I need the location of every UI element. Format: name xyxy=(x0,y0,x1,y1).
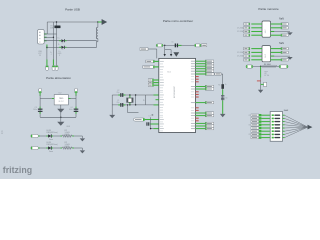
svg-text:NaN: NaN xyxy=(279,18,284,21)
svg-text:IN OUT: IN OUT xyxy=(59,101,64,103)
svg-text:RED(633nm): RED(633nm) xyxy=(47,144,58,146)
svg-text:NaN: NaN xyxy=(284,110,289,112)
svg-text:C7: C7 xyxy=(149,116,151,118)
svg-text:WP: WP xyxy=(264,73,266,75)
svg-text:1k: 1k xyxy=(225,84,227,86)
svg-text:Z1: Z1 xyxy=(62,43,64,45)
svg-text:R6 10kΩ: R6 10kΩ xyxy=(264,64,271,66)
svg-text:IC2: IC2 xyxy=(59,93,62,95)
svg-text:Z2: Z2 xyxy=(62,49,64,51)
svg-text:C6: C6 xyxy=(225,98,227,100)
svg-text:5mm: 5mm xyxy=(49,151,53,153)
svg-text:22p: 22p xyxy=(116,102,119,104)
svg-text:R5: R5 xyxy=(218,85,220,87)
svg-text:5mm: 5mm xyxy=(49,139,53,141)
svg-text:fritzing: fritzing xyxy=(3,165,32,175)
svg-text:Partie mémoire: Partie mémoire xyxy=(258,7,279,11)
svg-text:7805: 7805 xyxy=(59,98,63,100)
svg-text:100n: 100n xyxy=(69,109,73,111)
svg-text:XT: XT xyxy=(143,99,145,101)
svg-text:R7 10k: R7 10k xyxy=(264,75,269,77)
svg-text:C5: C5 xyxy=(171,42,173,44)
svg-text:Partie USB: Partie USB xyxy=(65,8,80,12)
svg-text:NaN: NaN xyxy=(279,42,284,45)
svg-text:Partie micro-contrôleur: Partie micro-contrôleur xyxy=(163,19,193,23)
svg-text:RED(633nm): RED(633nm) xyxy=(47,132,58,134)
svg-text:Partie alimentation: Partie alimentation xyxy=(46,76,71,80)
svg-text:100n: 100n xyxy=(33,109,37,111)
svg-text:ATMEGA328P: ATMEGA328P xyxy=(173,85,176,97)
svg-text:22p: 22p xyxy=(116,92,119,94)
svg-text:1/4W: 1/4W xyxy=(65,146,70,148)
svg-text:1/4W: 1/4W xyxy=(65,134,70,136)
svg-text:D+: D+ xyxy=(57,38,59,40)
